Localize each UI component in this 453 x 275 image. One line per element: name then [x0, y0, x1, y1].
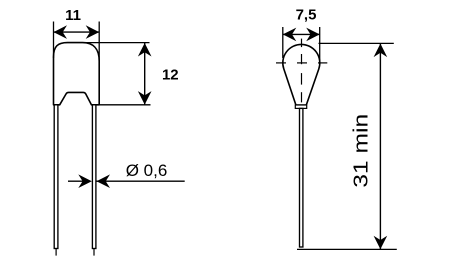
diameter 0,6 label [126, 161, 168, 180]
right lead [300, 108, 303, 247]
dimension 7,5 extension line left [282, 27, 284, 58]
dimension 11 extension line left [53, 22, 55, 59]
svg-text:12: 12 [162, 66, 179, 83]
dimension 7,5 line [283, 33, 320, 35]
dimension 11 arrow right [86, 25, 100, 39]
dimension 31min arrow up [374, 44, 388, 58]
vertical centerline [301, 39, 303, 103]
dimension 12 line [144, 43, 146, 104]
dimension 12 arrow up [138, 43, 152, 57]
left lead 1 [54, 105, 58, 249]
dimension 7,5 extension line right [319, 27, 321, 64]
svg-text:31 min: 31 min [351, 114, 373, 188]
svg-text:Ø 0,6: Ø 0,6 [126, 161, 168, 180]
dimension 11 label [65, 7, 81, 24]
right body neck band [295, 105, 306, 108]
dimension 12 arrow down [138, 91, 152, 105]
dimension 7,5 arrow right [306, 28, 320, 42]
diameter 0,6 right arrow [97, 174, 111, 188]
dimension 11 arrow left [54, 25, 68, 39]
svg-text:11: 11 [65, 7, 81, 24]
dimension 7,5 label [296, 7, 317, 24]
dimension 7,5 arrow left [283, 28, 297, 42]
diameter 0,6 right line [97, 180, 185, 182]
left body outline [54, 43, 100, 105]
svg-text:7,5: 7,5 [296, 7, 317, 24]
left lead 2 tail [93, 249, 95, 256]
dimension 12 label [162, 66, 179, 83]
diameter 0,6 left leader line [68, 180, 88, 182]
dimension 12 bottom extension line [99, 104, 150, 106]
dimension 11 line [54, 31, 100, 33]
dimension 11 extension line right [98, 22, 100, 63]
horizontal centerline [276, 62, 327, 64]
dimension 31min top extension line [319, 42, 394, 44]
dimension 31min arrow down [374, 236, 388, 250]
left lead 2 [92, 105, 96, 249]
dimension 31min line [379, 44, 381, 249]
left lead 1 tail [55, 249, 57, 256]
dimension 31min bottom extension line [297, 248, 397, 250]
diameter 0,6 left arrow [78, 174, 92, 188]
dimension 31min label [351, 114, 373, 188]
right body outline [283, 44, 320, 105]
dimension 12 top extension line [84, 42, 150, 44]
